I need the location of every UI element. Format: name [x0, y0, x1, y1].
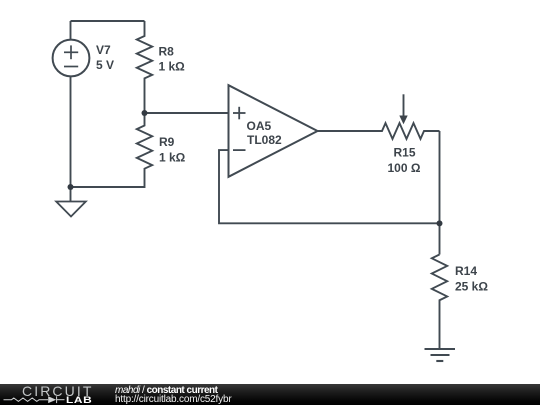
- svg-text:1 kΩ: 1 kΩ: [159, 151, 186, 165]
- svg-text:V7: V7: [96, 43, 111, 57]
- svg-text:5 V: 5 V: [96, 58, 114, 72]
- svg-text:1 kΩ: 1 kΩ: [159, 60, 186, 74]
- svg-text:OA5: OA5: [247, 119, 272, 133]
- svg-text:100 Ω: 100 Ω: [388, 161, 421, 175]
- svg-text:R15: R15: [394, 146, 416, 160]
- svg-text:R9: R9: [159, 135, 175, 149]
- svg-text:TL082: TL082: [247, 133, 282, 147]
- svg-text:25 kΩ: 25 kΩ: [455, 280, 488, 294]
- svg-text:R14: R14: [455, 264, 477, 278]
- svg-text:R8: R8: [159, 45, 175, 59]
